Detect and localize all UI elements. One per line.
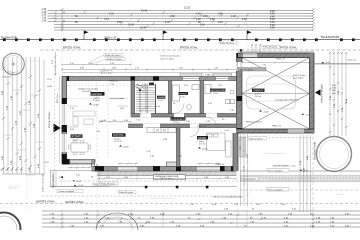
left column connectors [4, 72, 45, 188]
bottom dimension lines [42, 211, 360, 227]
garage north wall [238, 53, 314, 58]
right outdoor: beton szegelyek line [240, 169, 360, 173]
svg-text:1.9 m²: 1.9 m² [158, 99, 164, 102]
svg-text:±0.00: ±0.00 [202, 148, 208, 150]
bottom block crossing verticals [62, 210, 313, 228]
west exterior wall [60, 77, 67, 165]
left column terminal numbers [0, 167, 24, 172]
kitchen counter [147, 128, 176, 133]
svg-text:ke-Rice mon vb pillé: ke-Rice mon vb pillé [43, 173, 45, 192]
svg-text:PTA h+7d: PTA h+7d [197, 125, 206, 128]
corridor north wall [131, 113, 237, 117]
svg-text:előzetes terv: előzetes terv [29, 60, 40, 63]
room label KOZLEKEDO [171, 117, 186, 124]
terrace slab [51, 171, 100, 187]
watermark texts [150, 152, 344, 200]
garage EPS outer line [238, 51, 314, 53]
svg-text:PORTA TERASZ: PORTA TERASZ [48, 111, 51, 128]
szoba east wall [233, 133, 238, 171]
svg-text:GARÁZS: GARÁZS [253, 89, 264, 92]
south wall step [92, 160, 96, 168]
svg-text:5.85: 5.85 [117, 21, 122, 24]
telekhatar property line [0, 39, 360, 41]
room label KAMRA [157, 96, 166, 103]
garage annotations [240, 58, 306, 102]
svg-text:±0.00: ±0.00 [123, 146, 129, 148]
west side small dim line [55, 52, 57, 76]
beam dashed lines nappali [67, 82, 131, 158]
svg-text:Próba 03 típusú: Próba 03 típusú [242, 177, 256, 180]
dashed site lines below house [42, 181, 240, 196]
pier blocks [62, 76, 69, 81]
top dimension lines [48, 10, 314, 30]
proba labels bottom left [100, 182, 136, 194]
top dimension numbers left column [42, 8, 47, 22]
svg-text:2.80: 2.80 [170, 15, 175, 18]
svg-text:ÉTKEZŐ: ÉTKEZŐ [72, 135, 82, 138]
svg-text:2.50: 2.50 [203, 15, 208, 18]
kamra west thin wall [155, 84, 157, 114]
north exterior wall (house) [62, 73, 237, 81]
interior wall stairhall west [131, 81, 135, 118]
extra small dims inside rooms [70, 108, 235, 158]
survey flag marker 1 [84, 31, 89, 40]
epitesi vonal dashed line [40, 49, 360, 51]
interior wall furdo/hazt [200, 81, 204, 118]
svg-text:+TENGELYMÉRET+ -0.15: +TENGELYMÉRET+ -0.15 [272, 165, 297, 168]
pier blocks [62, 98, 67, 104]
left wall level marks [44, 79, 53, 164]
svg-text:1.40: 1.40 [42, 19, 47, 22]
house-garage shared wall [234, 53, 242, 133]
svg-text:10.40: 10.40 [128, 24, 135, 27]
window gap 2 in west wall [62, 134, 67, 152]
svg-text:beton sze: beton sze [348, 59, 358, 62]
dim row above konyha [99, 121, 132, 123]
svg-text:FÜRDŐ: FÜRDŐ [179, 93, 187, 96]
proba label top right of house [219, 41, 237, 44]
svg-text:3.90: 3.90 [11, 95, 13, 100]
svg-text:Próba 07 típusú: Próba 07 típusú [107, 58, 123, 61]
svg-text:6.4 m²: 6.4 m² [180, 96, 186, 99]
svg-text:60: 60 [63, 21, 65, 23]
svg-text:1.30: 1.30 [11, 160, 13, 165]
svg-text:Próba 05 típusú: Próba 05 típusú [220, 41, 234, 44]
svg-text:mon vb áthidaló: mon vb áthidaló [110, 97, 125, 100]
svg-text:14.40: 14.40 [141, 10, 148, 13]
bottom dashed arc [96, 213, 138, 230]
svg-text:2.50: 2.50 [210, 18, 215, 21]
window gap szoba [197, 167, 220, 171]
stairs [135, 84, 156, 114]
svg-text:31.8 m²: 31.8 m² [93, 99, 100, 102]
room label KONYHA [112, 133, 151, 153]
svg-text:SPL 75cm: SPL 75cm [234, 86, 236, 95]
right lower vertical dashed [312, 132, 314, 210]
svg-text:Próba 04 típusú: Próba 04 típusú [263, 46, 277, 49]
EPS label [100, 71, 215, 77]
svg-text:padl. födém: padl. födém [293, 78, 304, 80]
window sills above north wall [180, 73, 202, 76]
svg-text:Próba 02 típusú: Próba 02 típusú [249, 137, 263, 140]
svg-text:2.30: 2.30 [165, 21, 170, 24]
svg-text:tervről tervig felsorolás,: tervről tervig felsorolás, [160, 55, 181, 58]
svg-text:14.9 m²: 14.9 m² [199, 143, 206, 146]
room label FURDO [179, 92, 189, 99]
left dimension column [4, 57, 45, 174]
left column numbers (rotated) [2, 90, 40, 172]
svg-text:SZOBA: SZOBA [198, 137, 207, 140]
svg-text:( beton szegélyek ): ( beton szegélyek ) [59, 190, 76, 193]
svg-text:1.30: 1.30 [231, 15, 236, 18]
survey flag marker 3 [247, 31, 252, 40]
note text above north wall [160, 55, 181, 61]
svg-text:KERÍTÉS VONAL: KERÍTÉS VONAL [36, 201, 56, 204]
svg-text:+0.15: +0.15 [224, 130, 230, 132]
svg-text:+0.15: +0.15 [325, 62, 331, 64]
svg-text:Próba 06 típusú: Próba 06 típusú [105, 54, 121, 57]
svg-text:7.15: 7.15 [104, 18, 109, 21]
svg-text:előzetes engedélyezési: előzetes engedélyezési [263, 152, 286, 155]
south bay protrusion [167, 162, 179, 167]
summary label box [154, 175, 186, 180]
svg-text:KERÍTÉS VONAL: KERÍTÉS VONAL [65, 201, 85, 204]
garage south wall [237, 129, 315, 133]
right upper dimension column [330, 53, 346, 137]
szoba outside steps strip [240, 137, 246, 157]
svg-text:±0.00: ±0.00 [93, 104, 99, 106]
left column closing line [2, 173, 45, 175]
svg-text:41.4 m²: 41.4 m² [255, 95, 262, 98]
misc small dims inside plan [78, 79, 311, 166]
EPS lines outside west wall [59, 77, 61, 165]
svg-text:KAMRA: KAMRA [158, 96, 166, 99]
numbers row above bottom block [190, 204, 297, 211]
dim tick row under terrace strip [97, 178, 237, 180]
svg-text:GÉPKOCSI BEJÁRÓ: GÉPKOCSI BEJÁRÓ [321, 84, 324, 103]
svg-text:+0.15: +0.15 [305, 115, 311, 117]
svg-text:TELEKHATÁR: TELEKHATÁR [1, 36, 17, 39]
svg-text:TELEKHATÁR: TELEKHATÁR [321, 35, 340, 39]
svg-text:.: . [60, 165, 64, 182]
window gap in west wall [62, 104, 67, 125]
svg-text:Otthon csak zárt padlóvonal pi: Otthon csak zárt padlóvonal pillér [213, 196, 243, 199]
svg-text:-0.15: -0.15 [76, 181, 82, 183]
left black triangle marker [54, 124, 61, 133]
svg-text:KÖZLEKEDŐ: KÖZLEKEDŐ [171, 118, 185, 121]
dim ticks above garage [251, 44, 261, 53]
svg-text:TERV SZEGÉLY: TERV SZEGÉLY [52, 172, 55, 188]
tree circle top-left [3, 53, 25, 75]
svg-text:SZOMSZÉD VONAL: SZOMSZÉD VONAL [314, 141, 317, 160]
svg-text:21.25: 21.25 [184, 7, 191, 10]
svg-text:KONYHA: KONYHA [113, 134, 124, 137]
window gap 3 in north wall [215, 77, 230, 80]
top dimension numbers mid [75, 7, 247, 30]
svg-text:2.45: 2.45 [218, 21, 223, 24]
window dims above north wall [62, 68, 237, 71]
leader label Proba 06 [90, 54, 125, 64]
bottom left tree circle [0, 213, 21, 240]
svg-text:NAPPALI: NAPPALI [92, 92, 103, 96]
svg-text:tusítógép padl. födémfűtés: tusítógép padl. födémfűtés [275, 99, 299, 102]
bottom dimension ticks [61, 214, 315, 229]
svg-text:EPS 15cm: EPS 15cm [101, 72, 112, 74]
right lower dimension column [300, 135, 311, 212]
svg-text:+0.15: +0.15 [78, 185, 84, 187]
survey flag marker 2 [163, 31, 168, 40]
svg-text:MŰ 7üa állmás: MŰ 7üa állmás [240, 68, 253, 71]
car outline [247, 76, 296, 109]
stairs arrow [137, 87, 141, 112]
svg-text:1.30: 1.30 [242, 18, 247, 21]
svg-text:5.6 m²: 5.6 m² [213, 92, 219, 95]
room label NAPPALI [89, 92, 105, 106]
tengelymeret label [213, 165, 297, 199]
pier blocks lower segment [95, 166, 104, 171]
window gap 2 in north wall [182, 77, 200, 80]
garage east wall [310, 53, 315, 133]
right column top numbers [332, 85, 337, 95]
svg-text:listám lát egyéb: listám lát egyéb [160, 57, 175, 60]
svg-text:aszfaltozott belső terület: aszfaltozott belső terület [270, 178, 294, 181]
top dimension ticks [54, 8, 315, 30]
terrace sliding door gap [71, 160, 92, 164]
guide dashed verticals in lower area [62, 132, 247, 210]
bathroom fixtures [173, 85, 200, 111]
right outdoor asphalt band [240, 176, 360, 182]
shared wall piers [237, 53, 243, 58]
svg-text:6.30: 6.30 [109, 12, 114, 15]
terrace level mark [59, 165, 94, 183]
right black triangle entrance marker [315, 89, 321, 95]
svg-text:beton szegélyek: beton szegélyek [268, 188, 282, 191]
window gap konyha [118, 167, 137, 171]
svg-text:beton szegélyek: beton szegélyek [268, 169, 282, 172]
svg-text:17.4 m²: 17.4 m² [173, 121, 180, 124]
svg-text:előzetes terv: előzetes terv [9, 184, 20, 187]
svg-text:tervezet: tervezet [336, 193, 344, 196]
room label GARAZS [252, 89, 269, 114]
svg-text:±0.00: ±0.00 [47, 86, 53, 88]
south exterior wall lower segment [92, 166, 237, 171]
bed szoba [207, 133, 232, 157]
corridor south wall [128, 124, 237, 128]
svg-text:60: 60 [63, 12, 65, 14]
hazt appliances [205, 85, 235, 104]
svg-text:28.06 m 34: 28.06 m 34 [104, 36, 117, 39]
svg-text:15cm EPS: 15cm EPS [82, 91, 92, 93]
hatch on south wall [106, 167, 228, 172]
pier sw corner [62, 159, 70, 164]
interior wall kamra/furdo [169, 81, 172, 118]
proba label above garage [262, 45, 280, 48]
konyha/szoba wall [177, 128, 181, 167]
beton szegelyek boxed label bottom-left [57, 189, 83, 193]
dining table etkezo [69, 141, 91, 155]
proba boxes right of slab [93, 183, 110, 186]
dim lines right of szoba [240, 134, 249, 206]
svg-text:EPS 5cm részlete: EPS 5cm részlete [246, 121, 263, 124]
beton szegelyek lower label [240, 188, 360, 192]
bottom dimension numbers [70, 213, 350, 227]
svg-text:PTA h+7d: PTA h+7d [272, 125, 281, 128]
svg-text:ÉPÍTÉSI VONAL: ÉPÍTÉSI VONAL [279, 47, 298, 50]
garage diagonals two X [242, 58, 310, 130]
svg-text:PTA h+7d: PTA h+7d [216, 163, 225, 166]
svg-text:15.34: 15.34 [140, 26, 147, 29]
proba label right [241, 177, 259, 180]
svg-text:PTA h+7d: PTA h+7d [109, 79, 118, 82]
tree circle right [317, 137, 352, 172]
south wall step verticals [95, 164, 98, 167]
garage lintel band [238, 68, 266, 72]
hatch [237, 56, 243, 126]
svg-text:PTA h+7d: PTA h+7d [276, 58, 285, 61]
sofa nappali [73, 111, 95, 126]
svg-text:+0.00: +0.00 [263, 111, 269, 113]
dim tick row inside rooms above south wall [118, 163, 221, 165]
door gap house to garage [236, 62, 242, 71]
svg-text:1.40: 1.40 [196, 12, 201, 15]
left column ticks [2, 67, 41, 170]
stair top wall niche [149, 83, 154, 86]
door arcs corridor [140, 104, 217, 137]
svg-text:EPS 15cm: EPS 15cm [57, 93, 59, 103]
svg-text:ÉPÍTÉSI VONAL: ÉPÍTÉSI VONAL [63, 47, 82, 50]
top dimension numbers right column [270, 10, 275, 30]
svg-text:Próba 03 típusú: Próba 03 típusú [101, 182, 115, 185]
extra bottom numbers [50, 213, 321, 227]
room label SZOBA [197, 136, 208, 150]
vertical guide dashed lines from top block [62, 6, 313, 80]
room label ETKEZO [71, 134, 83, 141]
svg-text:2.40: 2.40 [200, 24, 205, 27]
left vertical dashed kerites [54, 57, 56, 190]
right path edge line [314, 63, 360, 65]
terrace hatched strip along south wall [97, 171, 237, 175]
dim line above nappali [61, 64, 132, 66]
EPS insulation line above north wall [62, 71, 237, 73]
svg-text:9.6 m²: 9.6 m² [73, 139, 79, 142]
svg-text:ÉPÍTÉSI VONAL: ÉPÍTÉSI VONAL [180, 47, 199, 50]
marker arrow on epitesi vonal [240, 49, 243, 52]
room label HAZT.HELYISEG [210, 89, 226, 96]
telekhatar squares [3, 38, 355, 41]
dim ticks above slab [68, 167, 91, 169]
svg-text:6.40: 6.40 [270, 27, 275, 30]
svg-text:belső használatra készült: belső használatra készült [150, 197, 175, 200]
hatch on north wall [70, 77, 208, 81]
svg-text:HÁZT.HELYISÉG: HÁZT.HELYISÉG [211, 89, 227, 92]
dashed line below garage [240, 137, 310, 139]
south exterior wall left segment [62, 159, 95, 164]
svg-text:11.41 m²: 11.41 m² [114, 140, 122, 143]
garage inner dim line [241, 62, 311, 64]
pergola posts [50, 185, 237, 189]
svg-text:5.40: 5.40 [218, 12, 223, 15]
